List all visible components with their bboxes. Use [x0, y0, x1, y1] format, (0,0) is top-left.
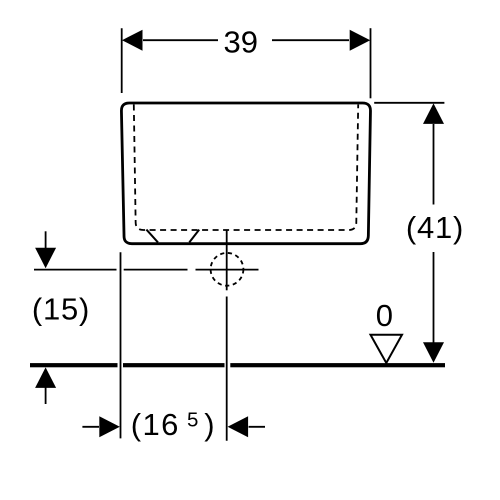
svg-text:5: 5 — [187, 409, 198, 432]
svg-text:(15): (15) — [32, 292, 90, 327]
svg-text:39: 39 — [224, 25, 258, 60]
svg-text:(16: (16 — [131, 407, 180, 442]
svg-text:): ) — [204, 407, 214, 442]
svg-text:0: 0 — [376, 298, 393, 333]
svg-text:(41): (41) — [406, 210, 464, 245]
